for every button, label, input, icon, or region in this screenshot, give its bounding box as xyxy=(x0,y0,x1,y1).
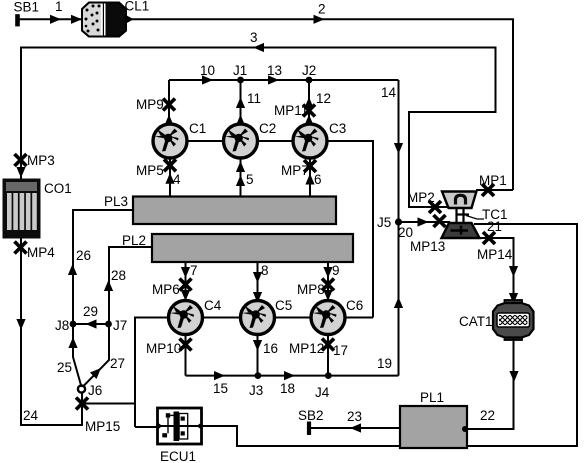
plenum PL3 xyxy=(133,197,336,225)
svg-text:SB2: SB2 xyxy=(298,408,324,423)
pipe 20 xyxy=(399,217,451,226)
wire 28 xyxy=(104,247,152,324)
svg-text:ECU1: ECU1 xyxy=(160,449,196,463)
pipe 17 xyxy=(327,335,329,376)
cylinder C6 xyxy=(311,301,345,335)
boundary SB2 xyxy=(307,422,311,436)
exhaust header top xyxy=(169,79,399,81)
svg-text:26: 26 xyxy=(76,248,91,263)
pipe 4 xyxy=(165,160,174,197)
turbocharger TC1 xyxy=(442,192,485,239)
svg-text:11: 11 xyxy=(247,91,261,106)
wire 3 xyxy=(16,43,495,207)
cleaner CL1 xyxy=(82,3,134,37)
measuring point MP14 xyxy=(483,232,495,244)
pipe 21 xyxy=(478,238,514,304)
boundary SB1 xyxy=(15,14,20,26)
wire 2 xyxy=(131,15,513,190)
svg-text:1: 1 xyxy=(55,0,63,14)
pipe 22 xyxy=(467,338,519,430)
cylinder C3 xyxy=(293,124,327,158)
svg-text:J1: J1 xyxy=(233,63,247,78)
wire 24 xyxy=(16,238,82,425)
pipe 15 xyxy=(186,335,226,381)
svg-text:MP10: MP10 xyxy=(146,341,181,356)
svg-text:J8: J8 xyxy=(55,318,69,333)
pipe 12 xyxy=(304,80,313,126)
exhaust header bottom xyxy=(186,375,399,377)
svg-text:J5: J5 xyxy=(377,215,391,230)
svg-text:MP15: MP15 xyxy=(85,419,120,434)
wire ECU to TC1 xyxy=(201,224,577,446)
junction J5 xyxy=(395,218,402,225)
svg-text:MP12: MP12 xyxy=(289,341,324,356)
svg-text:CAT1: CAT1 xyxy=(459,314,493,329)
pipe 5 xyxy=(236,160,245,197)
pipe 10 xyxy=(164,75,213,125)
svg-text:13: 13 xyxy=(267,63,282,78)
svg-text:PL1: PL1 xyxy=(420,390,444,405)
svg-text:29: 29 xyxy=(83,304,98,319)
svg-text:2: 2 xyxy=(318,1,326,16)
measuring point MP5 xyxy=(164,159,176,171)
measuring point MP13 xyxy=(434,215,446,227)
engine rail top xyxy=(152,141,373,318)
wire 29 xyxy=(73,319,109,328)
junction J8 xyxy=(70,321,77,328)
svg-text:MP4: MP4 xyxy=(27,245,55,260)
svg-text:8: 8 xyxy=(261,263,269,278)
svg-text:SB1: SB1 xyxy=(14,0,40,14)
svg-text:MP11: MP11 xyxy=(274,103,308,118)
cooler CO1 xyxy=(3,179,41,239)
svg-text:MP13: MP13 xyxy=(410,239,445,254)
pipe 14 xyxy=(394,80,403,376)
svg-text:28: 28 xyxy=(111,268,126,283)
svg-text:PL3: PL3 xyxy=(104,194,128,209)
wire 23 xyxy=(310,423,400,432)
svg-text:MP9: MP9 xyxy=(136,97,164,112)
svg-text:4: 4 xyxy=(173,172,181,187)
svg-text:10: 10 xyxy=(200,63,215,78)
svg-text:C4: C4 xyxy=(204,298,222,313)
svg-text:C6: C6 xyxy=(346,298,363,313)
measuring point MP2 xyxy=(429,201,441,213)
svg-text:MP2: MP2 xyxy=(407,190,435,205)
svg-text:C2: C2 xyxy=(259,121,276,136)
measuring point MP12 xyxy=(322,339,334,351)
svg-text:25: 25 xyxy=(57,360,72,375)
measuring point MP8 xyxy=(322,279,334,291)
measuring point MP6 xyxy=(180,279,192,291)
svg-text:CL1: CL1 xyxy=(125,0,150,14)
junction J1 xyxy=(237,77,244,84)
junction J6 xyxy=(78,385,85,392)
svg-text:C3: C3 xyxy=(329,121,346,136)
svg-text:J7: J7 xyxy=(113,318,127,333)
svg-text:7: 7 xyxy=(190,263,198,278)
svg-text:J3: J3 xyxy=(249,383,263,398)
svg-text:15: 15 xyxy=(213,381,228,396)
junction at PL1 xyxy=(462,426,468,432)
measuring point MP9 xyxy=(163,99,175,111)
svg-text:24: 24 xyxy=(23,408,39,423)
svg-text:MP8: MP8 xyxy=(297,282,325,297)
measuring point MP10 xyxy=(180,339,192,351)
junction J3 xyxy=(255,372,262,379)
svg-text:MP7: MP7 xyxy=(281,163,309,178)
svg-text:20: 20 xyxy=(398,225,413,240)
svg-text:MP3: MP3 xyxy=(27,153,55,168)
ECU U1 xyxy=(156,408,203,444)
svg-text:C5: C5 xyxy=(275,298,292,313)
measuring point MP15 xyxy=(76,398,88,410)
measuring point MP7 xyxy=(304,160,316,172)
cylinder C1 xyxy=(153,124,187,158)
measuring point MP1 xyxy=(482,184,494,196)
wire 26 xyxy=(68,210,133,324)
measuring point MP11 xyxy=(303,105,315,117)
svg-text:J4: J4 xyxy=(315,385,330,400)
wire 1 xyxy=(18,15,83,24)
cylinder C5 xyxy=(241,301,275,335)
svg-text:MP14: MP14 xyxy=(477,247,513,262)
wire MP1 pipe xyxy=(476,189,513,191)
pipe 16 xyxy=(253,335,262,376)
svg-text:J2: J2 xyxy=(302,63,316,78)
svg-text:18: 18 xyxy=(280,381,295,396)
plenum PL1 xyxy=(400,406,467,448)
svg-text:J6: J6 xyxy=(88,383,102,398)
svg-text:17: 17 xyxy=(333,343,348,358)
junction J4 xyxy=(325,372,332,379)
svg-text:22: 22 xyxy=(480,408,495,423)
wire 25 xyxy=(68,327,81,387)
svg-text:16: 16 xyxy=(263,341,278,356)
pipe 13 xyxy=(268,75,279,84)
svg-text:6: 6 xyxy=(314,172,322,187)
svg-text:5: 5 xyxy=(246,172,254,187)
cylinder C2 xyxy=(224,124,258,158)
svg-text:19: 19 xyxy=(377,356,392,371)
svg-text:C1: C1 xyxy=(189,121,206,136)
svg-text:12: 12 xyxy=(316,91,331,106)
svg-text:23: 23 xyxy=(347,409,362,424)
pipe 11 xyxy=(236,80,245,126)
catalyst CAT1 xyxy=(493,300,534,340)
svg-text:PL2: PL2 xyxy=(122,233,146,248)
svg-text:CO1: CO1 xyxy=(44,181,72,196)
svg-text:14: 14 xyxy=(381,85,397,100)
measuring point MP4 xyxy=(15,242,27,254)
svg-text:27: 27 xyxy=(110,356,125,371)
svg-text:MP5: MP5 xyxy=(136,163,164,178)
svg-text:9: 9 xyxy=(332,263,340,278)
svg-text:3: 3 xyxy=(250,30,258,45)
svg-text:MP6: MP6 xyxy=(152,282,180,297)
pipe 18 xyxy=(284,371,295,380)
cylinder C4 xyxy=(169,301,203,335)
svg-text:MP1: MP1 xyxy=(479,173,507,188)
engine rail bottom xyxy=(135,318,373,428)
pipe 21 arrows xyxy=(509,266,518,304)
junction J7 xyxy=(105,321,112,328)
pipe 8 xyxy=(253,262,262,303)
wire engine to ECU xyxy=(135,426,158,428)
pipe 7 xyxy=(181,262,190,301)
wire MP15 to engine xyxy=(82,403,135,405)
wire 27 xyxy=(83,327,110,387)
plenum PL2 xyxy=(152,234,353,262)
measuring point MP3 xyxy=(15,154,27,166)
junction J2 xyxy=(306,77,313,84)
pipe 9 xyxy=(323,262,332,301)
pipe 6 xyxy=(305,160,314,197)
